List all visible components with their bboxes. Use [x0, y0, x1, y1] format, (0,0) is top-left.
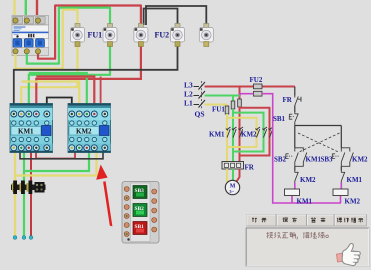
contactor KM2 main contacts schematic [255, 127, 273, 138]
wire red cross KM1 to KM2 bottom b [20, 148, 103, 159]
wire FR to motor yellow [227, 169, 229, 182]
fuse FU2b schematic [254, 91, 263, 96]
svg-text:3~: 3~ [229, 189, 234, 194]
fuse FU2a schematic [254, 84, 263, 89]
wire green loop KM1 bottom to KM2 bottom [24, 148, 89, 171]
node wire end V [22, 236, 26, 240]
pushbutton SB3 NO [332, 148, 345, 167]
wire magenta KM2NC to KM1 coil [294, 183, 296, 190]
wire right branch upper [340, 126, 342, 148]
circuit breaker QS (physical) [12, 16, 49, 56]
wire fuse3 to fuse4 (black) [144, 9, 178, 26]
wire magenta KM1NC to KM2 coil [340, 183, 342, 190]
wire phase L2 green schematic [205, 96, 241, 102]
contactor KM1 [10, 104, 53, 153]
fuse FU2b physical [199, 24, 213, 47]
svg-text:L2: L2 [184, 90, 193, 99]
label KM2 main contacts [241, 131, 257, 139]
wire motor tail yellow KM1 to end [14, 148, 16, 236]
svg-text:FU1: FU1 [88, 31, 103, 40]
message text 接线正确 请继续 (CJK pseudo-glyphs) [267, 232, 329, 239]
svg-text:KM1: KM1 [306, 156, 322, 164]
wire fuse1 bottom to KM1 (yellow) [21, 45, 77, 114]
contact KM1 aux NO self-hold [295, 148, 322, 167]
label FU2 physical [155, 31, 170, 40]
pushbutton station SB1 SB2 SB3 [122, 182, 159, 244]
wire supply L1 yellow to breaker [13, 0, 15, 15]
wire red KM1 to KM2 top feed [36, 77, 94, 115]
wire FR to motor red [237, 169, 240, 182]
wire green KM1 to KM2 top feed [29, 73, 87, 114]
relay contact FR NC [283, 96, 302, 113]
svg-text:KM2: KM2 [300, 176, 316, 184]
terminal block XT [11, 181, 46, 195]
wire breaker to FU1 fuse1 (yellow loop) [16, 10, 78, 69]
svg-text:L3: L3 [184, 81, 193, 90]
wire phase L1 yellow schematic [205, 105, 228, 107]
contact KM2 aux NO self-hold [341, 148, 368, 167]
contact KM2 NC interlock [295, 171, 316, 185]
contact KM1 NC interlock [341, 171, 362, 185]
fuse FU1a [71, 24, 85, 47]
label SB3 [321, 156, 334, 164]
wire yellow branch to KM2 pole [227, 118, 257, 147]
wire motor tail red KM1 to end [30, 148, 32, 236]
svg-text:L1: L1 [184, 99, 193, 108]
svg-text:KM1: KM1 [209, 131, 225, 139]
hint arrow red [96, 165, 112, 227]
label FU2 schematic [250, 76, 263, 84]
pushbutton SB2 NO [286, 148, 299, 167]
label L3 [184, 81, 193, 90]
wire magenta control return [240, 94, 341, 203]
toolbar buttons [247, 215, 367, 227]
fuse FU1 schematic red pole [238, 99, 242, 107]
svg-text:FU1: FU1 [212, 106, 225, 114]
fuse FU1 schematic yellow pole [225, 106, 229, 114]
svg-text:KM1: KM1 [297, 198, 313, 206]
svg-text:QS: QS [195, 110, 205, 119]
wire fuse4 bottom to KM1 coil terminal (black) [14, 45, 178, 114]
thumbs up hand [337, 243, 361, 265]
label SB2 [274, 156, 287, 164]
motor M [225, 180, 239, 194]
wire motor tail green KM1 to end [23, 148, 25, 236]
wire breaker to FU1 fuse2 (green loop) [27, 8, 110, 64]
svg-text:FU2: FU2 [250, 76, 263, 84]
wire FR to motor green [232, 169, 234, 181]
wire red main vertical to FR [239, 107, 241, 162]
thermal relay FR heater [222, 162, 255, 172]
switch QS [194, 81, 206, 119]
wire fuse2 bottom to KM1 (green) [29, 45, 110, 114]
wire green main vertical to FR [232, 109, 234, 162]
wire fuse3 bottom to KM1 (red) [36, 45, 141, 114]
label KM1 main contacts [209, 131, 225, 139]
wire red branch to KM2 pole [240, 108, 270, 156]
svg-text:KM2: KM2 [241, 131, 257, 139]
wire red stub KM2 right [100, 77, 102, 104]
wire phase L3 red schematic [205, 87, 295, 100]
fuse FU2a physical [171, 24, 185, 47]
svg-text:KM1: KM1 [18, 128, 34, 136]
wire left branch upper [294, 126, 296, 148]
wire right branch to KM1NC [340, 166, 342, 170]
node wire end W [29, 236, 33, 240]
wire green branch to KM2 pole [233, 113, 264, 152]
svg-text:SB3: SB3 [321, 156, 334, 164]
wire yellow KM1 to KM2 top feed [21, 82, 79, 115]
wire left branch to KM2NC [294, 166, 296, 170]
wire control main dark vertical [294, 87, 296, 96]
svg-text:FR: FR [245, 164, 255, 172]
pushbutton SB1 NC [273, 112, 299, 126]
wire branch split horizontal [295, 125, 342, 127]
svg-text:FU2: FU2 [155, 31, 170, 40]
wire fuse3 to fuse5 (black) [146, 6, 206, 25]
message panel [246, 228, 369, 266]
fuse FU1 schematic green pole [231, 101, 235, 109]
wire yellow loop KM1 bottom to KM2 bottom [15, 148, 97, 176]
svg-text:KM1: KM1 [347, 176, 363, 184]
svg-text:SB2: SB2 [274, 156, 287, 164]
svg-text:KM2: KM2 [76, 128, 92, 136]
wire black jumper KM1 to KM2 top [47, 98, 72, 113]
wire supply L3 red to breaker [36, 0, 38, 15]
fuse FU1c [134, 24, 148, 47]
wire supply L2 green to breaker [25, 0, 27, 15]
coil KM2 [333, 189, 361, 206]
svg-text:KM2: KM2 [352, 156, 368, 164]
svg-text:KM2: KM2 [345, 198, 361, 206]
fuse FU1b [103, 24, 117, 47]
svg-text:SB1: SB1 [273, 115, 286, 123]
toolbar button text (CJK pseudo-glyphs) [252, 218, 363, 223]
wire yellow main vertical to FR [226, 114, 228, 162]
contactor KM2 [68, 104, 111, 153]
label FU1 physical [88, 31, 103, 40]
node wire end U [13, 236, 17, 240]
wire red cross KM1 to KM2 bottom a [36, 148, 75, 159]
svg-text:FR: FR [283, 96, 293, 104]
label L2 [184, 90, 193, 99]
wire breaker to FU1 fuse3 (red loop) [38, 6, 141, 59]
interlock dashed cross [298, 133, 340, 153]
coil KM1 [285, 189, 313, 206]
contactor KM1 main contacts schematic [226, 127, 243, 138]
label FU1 schematic [212, 106, 225, 114]
label L1 [184, 99, 193, 108]
